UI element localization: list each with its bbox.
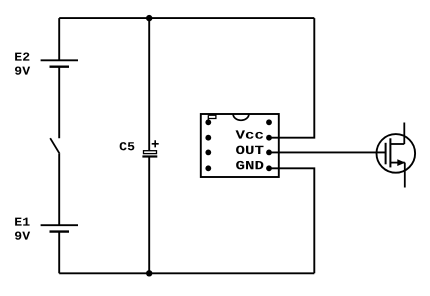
- wire OUT net: IC pin to MOSFET gate: [269, 151, 386, 153]
- wire top rail: [59, 17, 314, 19]
- wire Vcc net: IC pin to right rail up to top rail: [269, 18, 314, 138]
- Q1 source arrow: [397, 159, 405, 166]
- svg-text:9V: 9V: [14, 65, 31, 79]
- battery E1: [41, 225, 78, 231]
- svg-text:E1: E1: [14, 216, 30, 230]
- IC U1 right pin dots (Vcc, OUT, GND rows): [266, 119, 272, 171]
- switch blade: [50, 138, 59, 154]
- svg-text:OUT: OUT: [235, 144, 264, 158]
- junction node top: [146, 15, 152, 21]
- junction node bottom: [146, 270, 152, 276]
- wire switch to E1: [58, 154, 60, 226]
- Q1 drain lead: [403, 123, 405, 145]
- wire bottom rail: [59, 272, 314, 274]
- IC U1 notch: [233, 114, 249, 120]
- transistor Q1 (MOSFET) body circle: [377, 134, 416, 173]
- Q1 source connection: [390, 162, 404, 164]
- svg-text:E2: E2: [14, 51, 30, 65]
- wire GND net: IC pin to right rail down to bottom rail: [269, 168, 314, 273]
- IC U1 left pin dots: [205, 119, 211, 171]
- wire capacitor branch lower: [148, 158, 150, 274]
- Q1 drain connection: [390, 143, 404, 145]
- svg-text:GND: GND: [235, 159, 264, 173]
- Q1 channel bar: [389, 138, 391, 167]
- svg-text:C5: C5: [119, 140, 135, 154]
- wire capacitor branch upper: [148, 18, 150, 150]
- capacitor C5: [142, 140, 158, 156]
- Q1 gate bar: [385, 143, 387, 165]
- Q1 source lead: [404, 163, 406, 188]
- svg-text:9V: 9V: [14, 230, 31, 244]
- svg-text:Vcc: Vcc: [235, 129, 264, 143]
- wire left rail upper (top rail to E2): [58, 18, 60, 60]
- battery E2: [41, 60, 78, 66]
- wire E2 to switch: [58, 67, 60, 139]
- IC U1 body: [201, 114, 279, 177]
- IC U1 pin-1 marker: [208, 115, 216, 122]
- wire E1 to bottom rail: [58, 232, 60, 274]
